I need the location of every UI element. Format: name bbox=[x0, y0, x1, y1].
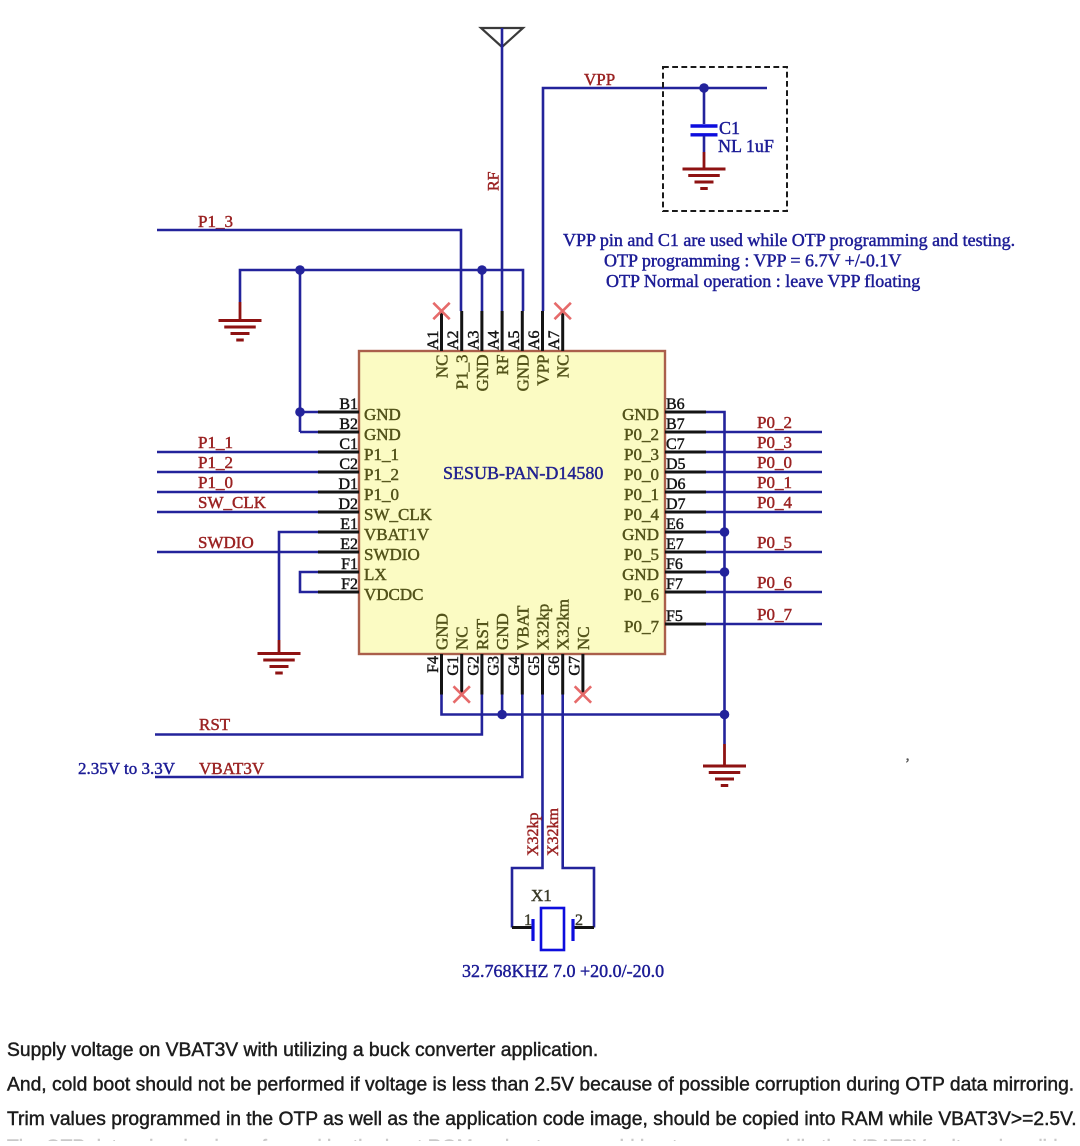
svg-text:VBAT1V: VBAT1V bbox=[364, 525, 430, 544]
wire SW_CLK bbox=[157, 511, 318, 514]
pin G5 (X32kp) bbox=[526, 604, 553, 695]
wire B1 branch bbox=[300, 411, 320, 414]
svg-text:E1: E1 bbox=[340, 516, 358, 533]
wire right GND vertical bbox=[706, 412, 725, 744]
junction bbox=[720, 710, 730, 720]
note: supply voltage paragraph bbox=[7, 1040, 1077, 1146]
wire P0_1 bbox=[706, 491, 822, 494]
wire P0_7 bbox=[706, 623, 822, 626]
svg-text:P1_3: P1_3 bbox=[198, 212, 233, 231]
pin D2 (SW_CLK) bbox=[318, 496, 433, 524]
svg-text:G6: G6 bbox=[546, 656, 563, 676]
svg-text:P1_0: P1_0 bbox=[364, 485, 399, 504]
wire P1_3 bbox=[157, 230, 461, 311]
pin B1 (GND) bbox=[318, 396, 401, 424]
svg-text:G5: G5 bbox=[526, 656, 543, 676]
svg-text:P1_1: P1_1 bbox=[198, 433, 233, 452]
wire P0_2 bbox=[706, 431, 822, 434]
wire VBAT1V to ground bbox=[279, 532, 318, 640]
svg-text:P1_1: P1_1 bbox=[364, 445, 399, 464]
svg-text:GND: GND bbox=[513, 355, 532, 392]
svg-text:A1: A1 bbox=[425, 330, 442, 350]
svg-text:E6: E6 bbox=[666, 516, 684, 533]
svg-text:A4: A4 bbox=[486, 330, 503, 350]
svg-text:VPP: VPP bbox=[534, 355, 553, 386]
svg-text:X32kp: X32kp bbox=[525, 812, 542, 856]
svg-text:’: ’ bbox=[905, 756, 910, 772]
pin B2 (GND) bbox=[318, 416, 401, 444]
svg-text:X32kp: X32kp bbox=[534, 604, 553, 650]
svg-text:SESUB-PAN-D14580: SESUB-PAN-D14580 bbox=[443, 463, 603, 483]
pin A5 (GND) bbox=[506, 311, 533, 391]
pin G3 (GND) bbox=[486, 613, 512, 694]
svg-text:OTP programming : VPP = 6.7V +: OTP programming : VPP = 6.7V +/-0.1V bbox=[604, 251, 901, 271]
wire VPP net bbox=[543, 88, 767, 311]
capacitor C1 bbox=[691, 88, 718, 152]
wire X32kp bbox=[512, 695, 543, 928]
pin B7 (P0_2) bbox=[624, 416, 706, 444]
pin E7 (P0_5) bbox=[624, 536, 706, 564]
pin A4 (RF) bbox=[486, 311, 512, 375]
pin D1 (P1_0) bbox=[318, 476, 399, 504]
svg-text:A7: A7 bbox=[546, 330, 563, 350]
wire VBAT3V bbox=[155, 695, 522, 778]
junction bbox=[720, 567, 730, 577]
note: VPP usage text bbox=[563, 230, 1015, 291]
junction bbox=[295, 265, 305, 275]
wire SWDIO bbox=[157, 551, 318, 554]
svg-text:P0_0: P0_0 bbox=[757, 453, 792, 472]
svg-text:2.35V to 3.3V: 2.35V to 3.3V bbox=[78, 759, 176, 778]
svg-text:C1: C1 bbox=[339, 436, 358, 453]
svg-text:P1_0: P1_0 bbox=[198, 473, 233, 492]
crystal X1 bbox=[512, 908, 594, 950]
pin A2 (P1_3) bbox=[445, 311, 472, 389]
pin G1 (NC) bbox=[445, 626, 472, 694]
svg-text:X1: X1 bbox=[531, 886, 552, 905]
svg-text:NC: NC bbox=[554, 355, 573, 379]
pin A7 (NC) bbox=[546, 311, 573, 378]
svg-text:GND: GND bbox=[493, 613, 512, 650]
svg-text:2: 2 bbox=[575, 912, 583, 929]
pin A3 (GND) bbox=[465, 311, 492, 391]
dashed box around C1 bbox=[663, 67, 787, 211]
wire B2 branch bbox=[300, 431, 320, 434]
wire top GND net bbox=[240, 270, 523, 311]
svg-text:P0_4: P0_4 bbox=[757, 493, 792, 512]
svg-text:SW_CLK: SW_CLK bbox=[198, 493, 267, 512]
svg-text:P0_7: P0_7 bbox=[757, 605, 792, 624]
svg-text:VPP pin and C1 are used while: VPP pin and C1 are used while OTP progra… bbox=[563, 230, 1015, 250]
pin F7 (P0_6) bbox=[624, 576, 706, 604]
svg-text:RST: RST bbox=[199, 715, 231, 734]
wire P1_1 bbox=[157, 451, 318, 454]
svg-text:P0_3: P0_3 bbox=[624, 445, 659, 464]
pin D7 (P0_4) bbox=[624, 496, 706, 524]
svg-text:F4: F4 bbox=[425, 656, 442, 673]
wire P0_6 bbox=[706, 591, 822, 594]
pin G2 (RST) bbox=[465, 618, 492, 694]
svg-text:P0_1: P0_1 bbox=[624, 485, 659, 504]
wire GND branch down to B1/B2 bbox=[299, 270, 302, 432]
svg-text:NC: NC bbox=[574, 626, 593, 650]
wire GND F6 bbox=[706, 571, 725, 574]
junction bbox=[497, 710, 507, 720]
pin E2 (SWDIO) bbox=[318, 536, 420, 564]
svg-text:GND: GND bbox=[473, 355, 492, 392]
pin G4 (VBAT) bbox=[506, 605, 533, 695]
pin C2 (P1_2) bbox=[318, 456, 399, 484]
svg-text:NL 1uF: NL 1uF bbox=[718, 136, 774, 156]
svg-text:C7: C7 bbox=[666, 436, 685, 453]
svg-text:G3: G3 bbox=[486, 656, 503, 676]
no-connect X on pin A7 bbox=[555, 303, 571, 319]
wire bottom GND net bbox=[442, 695, 725, 715]
no-connect X on pin G1 bbox=[454, 686, 470, 702]
svg-text:P1_2: P1_2 bbox=[364, 465, 399, 484]
svg-text:VBAT: VBAT bbox=[513, 605, 532, 650]
svg-text:1: 1 bbox=[524, 912, 532, 929]
svg-text:A5: A5 bbox=[506, 330, 523, 350]
svg-text:D7: D7 bbox=[666, 496, 686, 513]
pin C7 (P0_3) bbox=[624, 436, 706, 464]
svg-text:NC: NC bbox=[433, 355, 452, 379]
svg-text:SW_CLK: SW_CLK bbox=[364, 505, 433, 524]
svg-text:A3: A3 bbox=[465, 330, 482, 350]
junction bbox=[295, 407, 305, 417]
svg-text:P0_2: P0_2 bbox=[624, 425, 659, 444]
svg-text:G4: G4 bbox=[506, 656, 523, 676]
pin D6 (P0_1) bbox=[624, 476, 706, 504]
svg-text:A6: A6 bbox=[526, 330, 543, 350]
svg-text:P0_1: P0_1 bbox=[757, 473, 792, 492]
pin A1 (NC) bbox=[425, 311, 452, 378]
svg-text:A2: A2 bbox=[445, 330, 462, 350]
svg-text:E2: E2 bbox=[340, 536, 358, 553]
svg-text:D1: D1 bbox=[338, 476, 358, 493]
svg-text:LX: LX bbox=[364, 565, 387, 584]
svg-text:X32km: X32km bbox=[545, 807, 562, 856]
svg-text:D5: D5 bbox=[666, 456, 686, 473]
svg-text:Trim values programmed in the: Trim values programmed in the OTP as wel… bbox=[7, 1109, 1077, 1130]
wire GND G3 branch bbox=[501, 695, 504, 715]
svg-text:NC: NC bbox=[453, 626, 472, 650]
svg-text:OTP Normal operation : leave V: OTP Normal operation : leave VPP floatin… bbox=[606, 271, 920, 291]
svg-text:P0_5: P0_5 bbox=[757, 533, 792, 552]
junction VPP-C1 bbox=[699, 83, 709, 93]
svg-text:GND: GND bbox=[622, 405, 659, 424]
svg-text:GND: GND bbox=[433, 613, 452, 650]
svg-text:F6: F6 bbox=[666, 556, 683, 573]
svg-text:And, cold boot should not be p: And, cold boot should not be performed i… bbox=[7, 1075, 1074, 1096]
wire P0_0 bbox=[706, 471, 822, 474]
wire LX to VDCDC loop bbox=[300, 572, 318, 592]
svg-text:P0_5: P0_5 bbox=[624, 545, 659, 564]
svg-text:VPP: VPP bbox=[584, 70, 615, 89]
wire RF net (antenna to pin A4) bbox=[501, 28, 504, 311]
svg-text:VDCDC: VDCDC bbox=[364, 585, 424, 604]
svg-text:RST: RST bbox=[473, 618, 492, 650]
svg-text:B7: B7 bbox=[666, 416, 685, 433]
svg-text:F7: F7 bbox=[666, 576, 683, 593]
junction bbox=[477, 265, 487, 275]
svg-text:P0_7: P0_7 bbox=[624, 617, 659, 636]
svg-text:SWDIO: SWDIO bbox=[364, 545, 420, 564]
svg-text:F5: F5 bbox=[666, 608, 683, 625]
svg-text:E7: E7 bbox=[666, 536, 684, 553]
wire GND branch to A3 bbox=[481, 270, 484, 311]
wire GND E6 bbox=[706, 531, 725, 534]
svg-text:GND: GND bbox=[622, 525, 659, 544]
svg-text:P0_3: P0_3 bbox=[757, 433, 792, 452]
pin F1 (LX) bbox=[318, 556, 387, 584]
svg-text:P0_0: P0_0 bbox=[624, 465, 659, 484]
ground (top left) bbox=[219, 302, 262, 340]
pin A6 (VPP) bbox=[526, 311, 553, 386]
svg-text:RF: RF bbox=[493, 355, 512, 376]
pin E1 (VBAT1V) bbox=[318, 516, 430, 544]
svg-text:B6: B6 bbox=[666, 396, 685, 413]
svg-text:P0_4: P0_4 bbox=[624, 505, 659, 524]
IC U1 SESUB-PAN-D14580 body bbox=[359, 351, 665, 654]
pin F4 (GND) bbox=[425, 613, 452, 694]
wire RST bbox=[155, 695, 482, 735]
wire P1_0 bbox=[157, 491, 318, 494]
wire P0_3 bbox=[706, 451, 822, 454]
svg-text:P1_2: P1_2 bbox=[198, 453, 233, 472]
svg-text:The OTP data mirroring is perf: The OTP data mirroring is performed by t… bbox=[7, 1137, 1063, 1141]
junction bbox=[720, 527, 730, 537]
pin F5 (P0_7) bbox=[624, 608, 706, 636]
ground (C1) bbox=[683, 152, 726, 189]
pin D5 (P0_0) bbox=[624, 456, 706, 484]
svg-text:Supply voltage on VBAT3V with: Supply voltage on VBAT3V with utilizing … bbox=[7, 1040, 598, 1061]
svg-text:GND: GND bbox=[622, 565, 659, 584]
svg-text:G7: G7 bbox=[566, 656, 583, 676]
pin E6 (GND) bbox=[622, 516, 706, 544]
svg-text:D2: D2 bbox=[338, 496, 358, 513]
pin F6 (GND) bbox=[622, 556, 706, 584]
svg-text:SWDIO: SWDIO bbox=[198, 533, 254, 552]
svg-text:P0_2: P0_2 bbox=[757, 413, 792, 432]
svg-text:G2: G2 bbox=[465, 656, 482, 676]
wire P0_4 bbox=[706, 511, 822, 514]
svg-text:C2: C2 bbox=[339, 456, 358, 473]
wire P0_5 bbox=[706, 551, 822, 554]
pin C1 (P1_1) bbox=[318, 436, 399, 464]
svg-text:VBAT3V: VBAT3V bbox=[199, 759, 265, 778]
pin G7 (NC) bbox=[566, 626, 593, 694]
ground (VBAT1V) bbox=[258, 640, 301, 673]
svg-text:RF: RF bbox=[486, 171, 503, 191]
svg-text:B1: B1 bbox=[339, 396, 358, 413]
svg-text:GND: GND bbox=[364, 405, 401, 424]
svg-text:F1: F1 bbox=[341, 556, 358, 573]
svg-text:B2: B2 bbox=[339, 416, 358, 433]
pin B6 (GND) bbox=[622, 396, 706, 424]
svg-text:X32km: X32km bbox=[554, 599, 573, 650]
svg-text:GND: GND bbox=[364, 425, 401, 444]
no-connect X on pin A1 bbox=[433, 303, 449, 319]
antenna bbox=[481, 28, 523, 47]
svg-text:F2: F2 bbox=[341, 576, 358, 593]
wire P1_2 bbox=[157, 471, 318, 474]
pin F2 (VDCDC) bbox=[318, 576, 424, 604]
pin G6 (X32km) bbox=[546, 599, 573, 695]
svg-text:P0_6: P0_6 bbox=[624, 585, 659, 604]
svg-text:G1: G1 bbox=[445, 656, 462, 676]
svg-text:D6: D6 bbox=[666, 476, 686, 493]
svg-text:P1_3: P1_3 bbox=[453, 355, 472, 390]
no-connect X on pin G7 bbox=[575, 686, 591, 702]
wire X32km bbox=[563, 695, 594, 928]
svg-text:P0_6: P0_6 bbox=[757, 573, 792, 592]
svg-text:C1: C1 bbox=[719, 118, 740, 138]
ground (bottom right) bbox=[703, 744, 746, 786]
svg-text:32.768KHZ 7.0 +20.0/-20.0: 32.768KHZ 7.0 +20.0/-20.0 bbox=[462, 961, 664, 981]
